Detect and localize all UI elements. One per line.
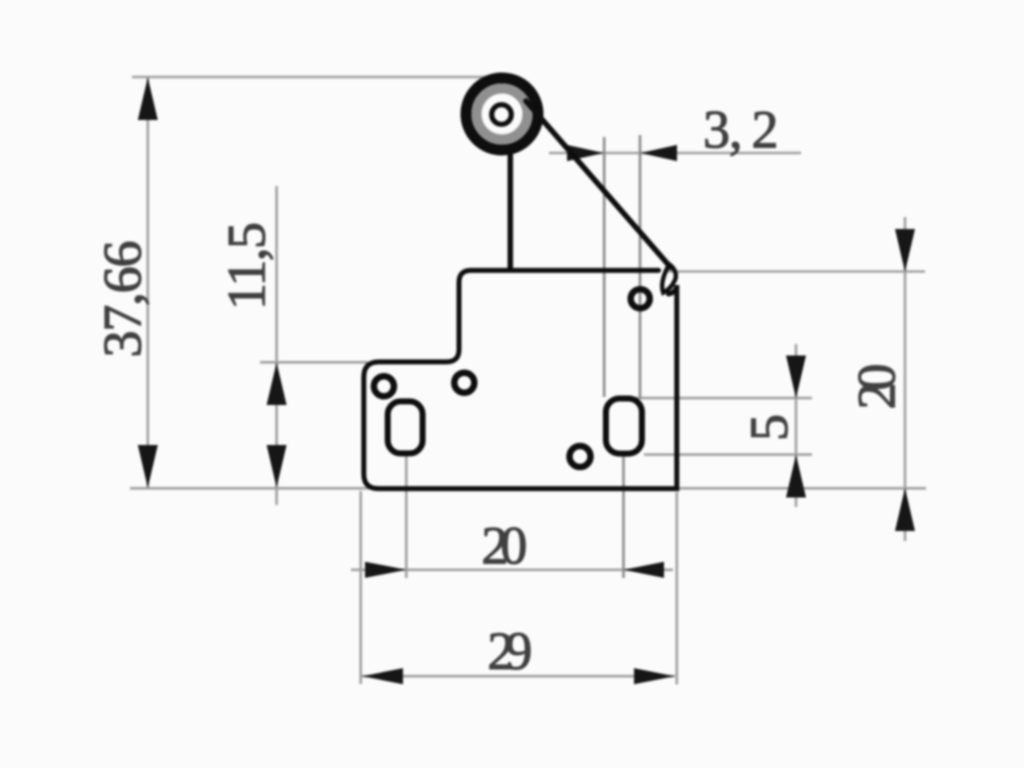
svg-text:3: 3	[703, 100, 730, 160]
extension baseline bottom of part	[130, 487, 926, 490]
arrow 5 top	[786, 356, 806, 399]
svg-text:2: 2	[752, 100, 779, 160]
arrow 20-bottom right	[624, 562, 665, 578]
part hole upper-right small	[631, 289, 650, 308]
extension line 3,2 right	[639, 135, 642, 399]
part hook beak	[662, 265, 676, 293]
part ear hole	[492, 105, 512, 125]
part slot right	[606, 399, 642, 454]
extension line 3,2 left	[603, 137, 606, 397]
svg-text:29: 29	[487, 621, 532, 681]
arrow 20-bottom left	[365, 562, 406, 578]
svg-text:11,5: 11,5	[217, 222, 277, 310]
dimension line 3,2 horizontal	[549, 152, 801, 155]
arrow 5 bottom	[786, 455, 806, 498]
dimension line 37,66 vertical	[147, 77, 150, 488]
extension line 11,5 upper	[260, 361, 368, 364]
arrow 29 right	[634, 668, 675, 684]
arrow 11,5 top	[267, 363, 287, 406]
extension line top edge right (20 right upper)	[668, 270, 925, 273]
dimension line 11,5 vertical	[275, 186, 278, 505]
extension line 29 right	[675, 492, 678, 685]
svg-text:20: 20	[481, 516, 527, 576]
svg-text:,: ,	[729, 100, 743, 160]
arrow 29 left	[362, 668, 403, 684]
arrow 37,66 bottom	[138, 445, 158, 488]
arrow 20-right bottom	[895, 488, 915, 531]
part slot left	[388, 401, 423, 453]
arrow 3,2 left	[567, 145, 604, 161]
part hole top-left small	[374, 376, 394, 396]
extension line 29 left	[359, 491, 362, 684]
dimension line 5 vertical	[795, 344, 798, 507]
part body outline	[364, 270, 677, 488]
extension line top of part (37,66 upper)	[132, 76, 499, 79]
extension line 5 lower	[644, 453, 812, 456]
arrow 3,2 right	[640, 145, 677, 161]
extension line 5 upper	[618, 397, 812, 400]
dimension line 20 right vertical	[904, 217, 907, 541]
dimension line 20 bottom	[351, 568, 673, 571]
svg-text:5: 5	[739, 414, 799, 441]
part lever slant edge	[526, 101, 671, 268]
part ear inner ring (faint)	[477, 89, 528, 140]
part ear outer ring (profile + boss merged)	[466, 78, 538, 150]
extension line 20-bottom left (slot centre)	[405, 457, 408, 579]
svg-text:37,66: 37,66	[93, 241, 153, 358]
part hole mid small	[454, 373, 474, 393]
extension line 20-bottom right (slot centre)	[622, 457, 625, 578]
dimension line 29	[362, 675, 675, 678]
part hole bottom-mid small	[570, 446, 591, 467]
arrow 20-right top	[895, 229, 915, 272]
part lever stem left edge	[508, 148, 514, 268]
svg-text:20: 20	[847, 364, 907, 410]
arrow 11,5 bottom	[267, 445, 287, 488]
arrow 37,66 top	[138, 78, 158, 121]
